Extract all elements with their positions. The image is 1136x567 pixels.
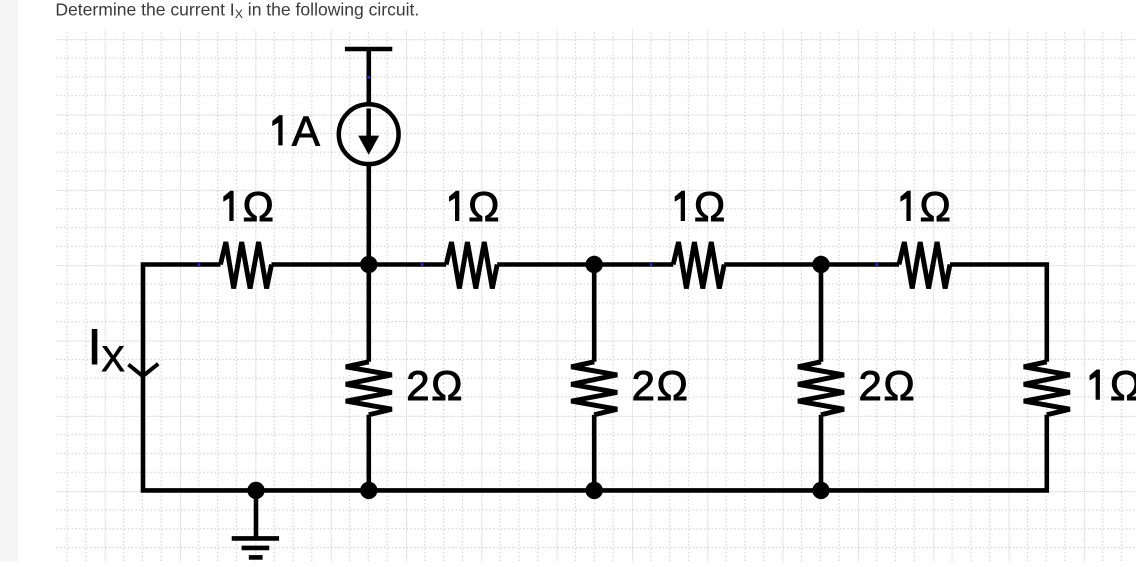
wire R6 to bottom [592, 415, 597, 491]
wire node2 down to R6 [592, 265, 597, 362]
label R3 value 1ohm [675, 183, 726, 230]
svg-text:X: X [101, 340, 124, 379]
svg-text:Ω: Ω [242, 183, 273, 230]
wire top segment node3 to R4 [724, 262, 899, 267]
wire R7 to bottom [819, 415, 824, 491]
supply rail bar [345, 47, 392, 52]
svg-text:2: 2 [858, 362, 881, 409]
wire ground stub [254, 490, 259, 537]
svg-text:Ω: Ω [920, 183, 951, 230]
resistor R6 2ohm vertical [571, 362, 617, 415]
junction node top3 [812, 256, 829, 273]
label 1A for current source [272, 107, 320, 154]
label R8 value 1ohm [1090, 362, 1136, 409]
junction node bottom2 [586, 482, 603, 499]
svg-text:2: 2 [406, 362, 429, 409]
wire R5 to bottom node [366, 415, 371, 491]
svg-text:Ω: Ω [1110, 362, 1136, 409]
wire node1 down to R5 [366, 265, 371, 362]
wire current source to node1 [366, 166, 371, 265]
junction node bottom ground [247, 482, 264, 499]
label R1 value 1ohm [223, 183, 274, 230]
terminal marker blue a [198, 263, 201, 266]
resistor R3 1ohm [673, 242, 724, 289]
svg-text:Ω: Ω [883, 362, 914, 409]
ground symbol [232, 538, 279, 557]
wire top segment node1 to R2 [272, 262, 447, 267]
terminal marker blue b [421, 263, 424, 266]
svg-text:Ω: Ω [468, 183, 499, 230]
current arrow Ix chevron [128, 364, 158, 376]
svg-text:2: 2 [632, 362, 655, 409]
wire supply stub above current source [366, 49, 371, 103]
resistor R4 1ohm [899, 242, 950, 289]
title text [55, 0, 419, 21]
label R2 value 1ohm [449, 183, 500, 230]
wire left side loop [143, 265, 1047, 491]
label R5 value 2ohm [406, 362, 462, 409]
svg-text:Ω: Ω [657, 362, 688, 409]
svg-text:A: A [292, 107, 320, 154]
resistor R1 1ohm [221, 242, 272, 289]
wire node3 down to R7 [819, 265, 824, 362]
wire top-right corner [950, 265, 1047, 362]
junction node bottom3 [812, 482, 829, 499]
wire top segment node2 to R3 [497, 262, 673, 267]
svg-text:Ω: Ω [694, 183, 725, 230]
label R4 value 1ohm [900, 183, 951, 230]
label R6 value 2ohm [632, 362, 688, 409]
resistor R5 2ohm vertical [346, 362, 392, 415]
terminal marker blue c [650, 263, 653, 266]
resistor R2 1ohm [446, 242, 497, 289]
terminal marker blue e [368, 76, 371, 79]
label R7 value 2ohm [858, 362, 914, 409]
label Ix [88, 319, 125, 379]
left gray strip [0, 0, 18, 562]
current source I1 circle [339, 104, 399, 164]
junction node top2 [586, 256, 603, 273]
svg-text:I: I [88, 319, 102, 375]
junction node top1 [360, 256, 377, 273]
junction node bottom1 [360, 482, 377, 499]
svg-text:Ω: Ω [431, 362, 462, 409]
terminal marker blue d [876, 263, 879, 266]
resistor R7 2ohm vertical [798, 362, 844, 415]
resistor R8 1ohm vertical right [1024, 362, 1070, 415]
